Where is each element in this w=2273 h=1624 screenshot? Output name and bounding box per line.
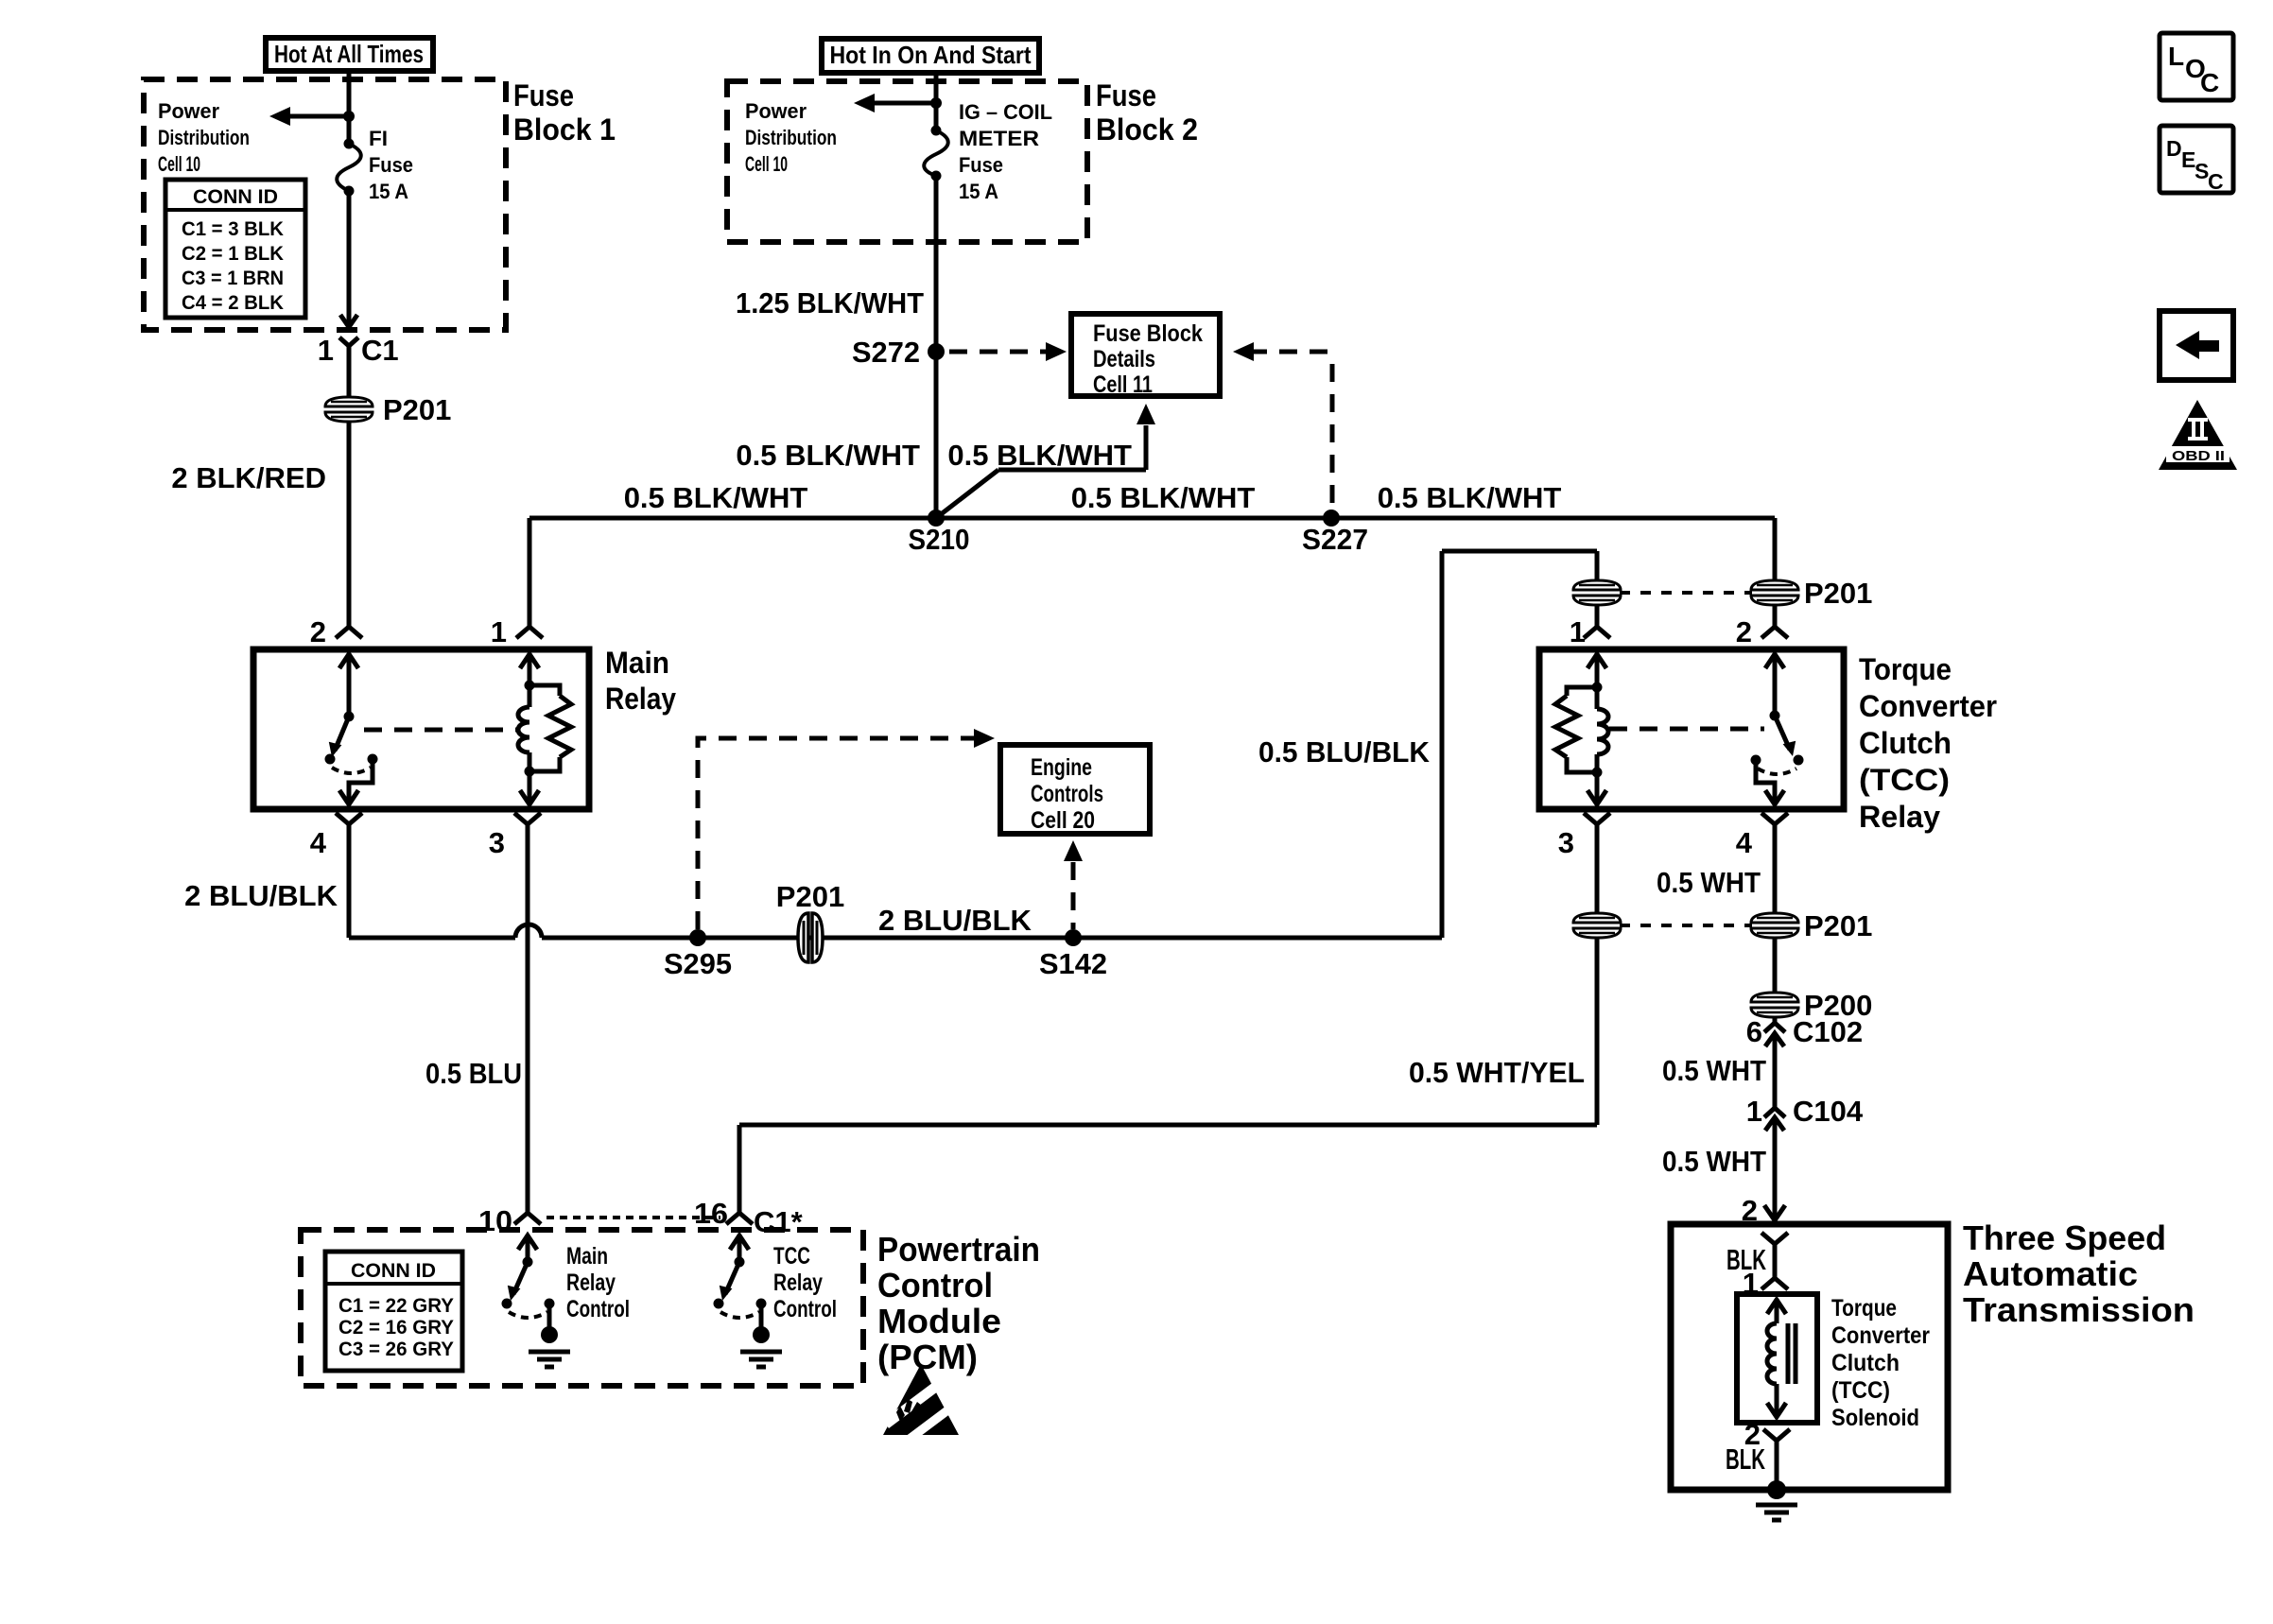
svg-text:METER: METER xyxy=(959,127,1039,150)
svg-text:Block 2: Block 2 xyxy=(1096,112,1198,147)
svg-text:Hot At All Times: Hot At All Times xyxy=(274,40,424,68)
svg-text:Engine: Engine xyxy=(1031,754,1092,781)
svg-text:Fuse: Fuse xyxy=(959,153,1003,177)
svg-text:C: C xyxy=(2208,169,2224,194)
svg-text:Distribution: Distribution xyxy=(158,126,250,149)
svg-text:BLK: BLK xyxy=(1726,1443,1765,1476)
svg-text:Relay: Relay xyxy=(605,682,676,716)
svg-text:Main: Main xyxy=(605,646,669,680)
svg-text:1: 1 xyxy=(1746,1095,1762,1128)
svg-text:Powertrain: Powertrain xyxy=(877,1230,1040,1269)
svg-text:0.5 WHT: 0.5 WHT xyxy=(1662,1054,1766,1087)
svg-text:C3 = 26 GRY: C3 = 26 GRY xyxy=(338,1339,454,1360)
svg-text:1: 1 xyxy=(318,334,334,367)
svg-text:15 A: 15 A xyxy=(369,180,408,203)
svg-text:Control: Control xyxy=(773,1296,837,1322)
svg-text:6: 6 xyxy=(1746,1015,1762,1048)
svg-text:Fuse: Fuse xyxy=(513,78,574,112)
svg-text:CONN ID: CONN ID xyxy=(351,1260,436,1282)
svg-text:Torque: Torque xyxy=(1859,652,1952,686)
svg-text:P201: P201 xyxy=(383,393,451,426)
svg-text:Fuse: Fuse xyxy=(369,153,413,177)
svg-text:(PCM): (PCM) xyxy=(877,1338,978,1376)
svg-text:S272: S272 xyxy=(852,336,920,369)
svg-text:0.5 BLU: 0.5 BLU xyxy=(425,1057,522,1090)
svg-text:10: 10 xyxy=(478,1204,512,1237)
svg-text:Relay: Relay xyxy=(566,1270,616,1296)
svg-text:OBD II: OBD II xyxy=(2172,448,2225,464)
svg-text:L: L xyxy=(2168,42,2184,71)
svg-text:Three Speed: Three Speed xyxy=(1963,1218,2166,1257)
svg-text:16: 16 xyxy=(694,1197,728,1230)
svg-text:2: 2 xyxy=(310,615,326,648)
svg-text:S227: S227 xyxy=(1302,523,1368,556)
svg-text:0.5 BLU/BLK: 0.5 BLU/BLK xyxy=(1258,735,1431,769)
svg-text:Cell 10: Cell 10 xyxy=(745,152,788,176)
svg-text:Power: Power xyxy=(158,99,219,123)
svg-text:S142: S142 xyxy=(1039,947,1107,980)
svg-text:S295: S295 xyxy=(664,947,732,980)
svg-text:Fuse Block: Fuse Block xyxy=(1093,320,1203,347)
svg-text:CONN ID: CONN ID xyxy=(193,186,278,208)
svg-text:0.5 WHT: 0.5 WHT xyxy=(1657,866,1761,899)
svg-text:P201: P201 xyxy=(1804,909,1872,942)
svg-text:P201: P201 xyxy=(776,880,844,913)
svg-text:Transmission: Transmission xyxy=(1963,1290,2195,1329)
svg-text:(TCC): (TCC) xyxy=(1831,1377,1890,1404)
svg-text:FI: FI xyxy=(369,127,388,150)
svg-text:Block 1: Block 1 xyxy=(513,112,616,147)
svg-text:C1 = 22 GRY: C1 = 22 GRY xyxy=(338,1295,454,1317)
svg-text:Converter: Converter xyxy=(1831,1322,1930,1349)
svg-text:C102: C102 xyxy=(1793,1015,1863,1048)
svg-text:Solenoid: Solenoid xyxy=(1831,1405,1919,1431)
svg-text:Control: Control xyxy=(566,1296,630,1322)
svg-text:Clutch: Clutch xyxy=(1831,1350,1900,1376)
svg-text:1.25 BLK/WHT: 1.25 BLK/WHT xyxy=(736,286,924,320)
svg-text:3: 3 xyxy=(1558,826,1574,859)
svg-text:Cell 20: Cell 20 xyxy=(1031,807,1095,834)
svg-text:C1: C1 xyxy=(361,334,399,367)
svg-text:IG – COIL: IG – COIL xyxy=(959,100,1052,124)
svg-text:2 BLU/BLK: 2 BLU/BLK xyxy=(878,904,1032,937)
svg-text:C2 = 16 GRY: C2 = 16 GRY xyxy=(338,1317,454,1339)
svg-text:0.5 BLK/WHT: 0.5 BLK/WHT xyxy=(1378,481,1562,514)
svg-text:Hot In On And Start: Hot In On And Start xyxy=(830,41,1032,69)
svg-text:4: 4 xyxy=(310,826,327,859)
svg-text:15 A: 15 A xyxy=(959,180,998,203)
svg-text:0.5 BLK/WHT: 0.5 BLK/WHT xyxy=(624,481,808,514)
svg-text:C: C xyxy=(2200,68,2219,97)
svg-text:Clutch: Clutch xyxy=(1859,726,1952,760)
svg-text:(TCC): (TCC) xyxy=(1859,763,1950,797)
svg-text:Main: Main xyxy=(566,1243,608,1270)
svg-text:0.5 WHT/YEL: 0.5 WHT/YEL xyxy=(1409,1056,1585,1089)
svg-text:C1*: C1* xyxy=(754,1205,804,1238)
svg-text:Details: Details xyxy=(1093,346,1155,372)
svg-text:C2 = 1 BLK: C2 = 1 BLK xyxy=(182,243,284,265)
svg-text:Control: Control xyxy=(877,1266,993,1304)
svg-text:Controls: Controls xyxy=(1031,781,1103,807)
svg-text:0.5 BLK/WHT: 0.5 BLK/WHT xyxy=(736,439,920,472)
svg-text:Distribution: Distribution xyxy=(745,126,837,149)
svg-text:C1 = 3 BLK: C1 = 3 BLK xyxy=(182,218,284,240)
svg-text:Cell 10: Cell 10 xyxy=(158,152,200,176)
svg-text:1: 1 xyxy=(1570,615,1586,648)
svg-text:Module: Module xyxy=(877,1302,1001,1340)
svg-text:0.5 WHT: 0.5 WHT xyxy=(1662,1145,1766,1178)
svg-text:2 BLK/RED: 2 BLK/RED xyxy=(171,461,326,494)
svg-text:0.5 BLK/WHT: 0.5 BLK/WHT xyxy=(1071,481,1256,514)
svg-text:Relay: Relay xyxy=(773,1270,823,1296)
svg-text:Converter: Converter xyxy=(1859,689,1997,723)
svg-text:S210: S210 xyxy=(909,523,970,556)
svg-text:2 BLU/BLK: 2 BLU/BLK xyxy=(184,879,338,912)
svg-text:4: 4 xyxy=(1736,826,1753,859)
svg-text:TCC: TCC xyxy=(773,1243,810,1270)
svg-text:0.5 BLK/WHT: 0.5 BLK/WHT xyxy=(947,439,1132,472)
svg-text:2: 2 xyxy=(1736,615,1752,648)
svg-text:Power: Power xyxy=(745,99,807,123)
svg-text:Automatic: Automatic xyxy=(1963,1254,2138,1293)
svg-text:C104: C104 xyxy=(1793,1095,1864,1128)
svg-text:Cell 11: Cell 11 xyxy=(1093,371,1153,398)
svg-text:Fuse: Fuse xyxy=(1096,78,1156,112)
svg-text:1: 1 xyxy=(491,615,507,648)
svg-text:Relay: Relay xyxy=(1859,800,1940,834)
svg-text:Torque: Torque xyxy=(1831,1295,1897,1322)
svg-text:D: D xyxy=(2166,136,2182,161)
svg-text:C4 = 2 BLK: C4 = 2 BLK xyxy=(182,292,284,314)
svg-text:P201: P201 xyxy=(1804,577,1872,610)
svg-text:C3 = 1 BRN: C3 = 1 BRN xyxy=(182,268,284,289)
svg-text:3: 3 xyxy=(489,826,505,859)
